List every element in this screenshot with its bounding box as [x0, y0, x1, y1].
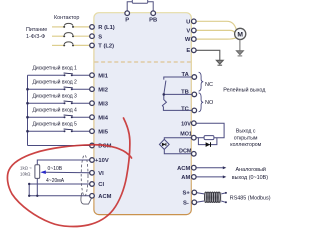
- right terminal labels: [177, 19, 192, 206]
- discrete input labels: [33, 64, 78, 127]
- terminal PB: [151, 11, 156, 16]
- svg-text:P: P: [125, 18, 129, 24]
- left terminal labels: [95, 25, 115, 200]
- internal transistor wires MO1-DCM: [164, 138, 191, 154]
- svg-text:Дискретный вход 2: Дискретный вход 2: [33, 78, 78, 85]
- svg-text:4~20мА: 4~20мА: [46, 178, 65, 184]
- terminal TC: [192, 108, 197, 113]
- svg-text:TB: TB: [181, 89, 189, 95]
- svg-text:открытым: открытым: [234, 135, 258, 141]
- junction dots analog: [28, 183, 39, 197]
- NC brace: [199, 72, 204, 91]
- svg-text:MI1: MI1: [98, 73, 108, 79]
- terminal W: [192, 37, 197, 42]
- svg-text:Дискретный вход 3: Дискретный вход 3: [33, 92, 78, 99]
- contactor K1 poles: [64, 23, 73, 44]
- svg-text:PB: PB: [149, 18, 157, 24]
- wire S phase: [52, 35, 64, 37]
- left terminals column: [90, 11, 197, 205]
- terminal MI3: [90, 101, 95, 106]
- svg-text:S: S: [98, 34, 102, 40]
- +10V wire: [37, 160, 90, 165]
- svg-text:NC: NC: [205, 82, 213, 88]
- svg-text:CI: CI: [98, 182, 104, 188]
- svg-text:U: U: [186, 19, 190, 25]
- terminal P: [125, 11, 130, 16]
- svg-text:W: W: [185, 37, 191, 43]
- terminal MO1: [192, 135, 197, 140]
- terminal ACM left: [90, 194, 95, 199]
- bus junction dots: [26, 88, 29, 91]
- svg-text:S-: S-: [183, 200, 189, 206]
- wire T phase: [52, 44, 64, 46]
- U V W motor wires: [196, 21, 236, 39]
- terminal MI1: [90, 73, 95, 78]
- shielded cable ellipse: [81, 155, 88, 196]
- NO brace: [199, 93, 204, 112]
- svg-text:ACM: ACM: [177, 166, 190, 172]
- svg-text:10V: 10V: [181, 121, 191, 127]
- terminal T: [90, 43, 95, 48]
- svg-text:ACM: ACM: [98, 194, 111, 200]
- current source diamond: [159, 139, 169, 149]
- P PB labels: [125, 18, 157, 24]
- terminal TB: [192, 92, 197, 97]
- svg-text:M: M: [237, 31, 243, 38]
- svg-text:TC: TC: [181, 107, 190, 113]
- RS485 twisted pair wires: [196, 193, 225, 203]
- svg-text:TA: TA: [182, 72, 190, 78]
- svg-text:MO1: MO1: [180, 132, 192, 138]
- VI wiper wire: [45, 171, 90, 174]
- ACM wire: [29, 195, 90, 197]
- open collector external circuit: [196, 123, 224, 144]
- svg-text:VI: VI: [98, 171, 104, 177]
- svg-text:MI2: MI2: [98, 87, 108, 93]
- terminal 10V right: [192, 121, 197, 126]
- svg-text:1kΩ ~: 1kΩ ~: [20, 166, 32, 171]
- svg-text:E: E: [186, 48, 190, 54]
- label Выход с открытым коллектором: [230, 129, 261, 148]
- svg-text:NO: NO: [205, 100, 214, 106]
- terminal V: [192, 28, 197, 33]
- terminal DCM left: [90, 143, 95, 148]
- svg-text:коллектором: коллектором: [230, 142, 261, 148]
- terminal MI4: [90, 115, 95, 120]
- terminal VI: [90, 171, 95, 176]
- svg-text:+10V: +10V: [95, 158, 109, 164]
- potentiometer bottom lead: [36, 178, 38, 195]
- svg-text:Аналоговый: Аналоговый: [236, 166, 266, 173]
- svg-text:Контактор: Контактор: [54, 15, 79, 21]
- terminal AM: [192, 175, 197, 180]
- terminal CI: [90, 182, 95, 187]
- svg-text:выход (0~10В): выход (0~10В): [232, 175, 268, 181]
- CI to ACM link: [28, 184, 30, 196]
- svg-text:Релейный выход: Релейный выход: [223, 87, 266, 94]
- terminal MI5: [90, 129, 95, 134]
- svg-text:MI4: MI4: [98, 115, 108, 121]
- svg-text:DCM: DCM: [179, 148, 192, 154]
- analog output arrows ACM AM: [196, 168, 223, 177]
- discrete input bus: [27, 75, 29, 145]
- svg-text:MI5: MI5: [98, 129, 108, 135]
- terminal E: [192, 48, 197, 53]
- E earth wire: [196, 50, 223, 65]
- DCM wire from bus: [28, 145, 90, 147]
- analog input wiring: [29, 160, 90, 196]
- terminal +10V: [90, 158, 95, 163]
- svg-text:1-Ф/3-Ф: 1-Ф/3-Ф: [26, 34, 45, 40]
- svg-text:AM: AM: [181, 175, 190, 181]
- switch blades on MI rows: [64, 73, 73, 130]
- potentiometer R1: [35, 165, 40, 179]
- motor M: [235, 28, 246, 39]
- terminal DCM right: [192, 152, 197, 157]
- red annotation loop: [7, 118, 131, 227]
- braking resistor: [132, 0, 147, 3]
- wire R phase: [52, 27, 90, 46]
- flyback diode: [206, 142, 211, 147]
- wiper arrow: [40, 170, 46, 174]
- terminal R: [90, 25, 95, 30]
- motor ground: [236, 39, 243, 56]
- terminal U: [192, 19, 197, 24]
- svg-text:Выход с: Выход с: [236, 129, 256, 135]
- inverter block body: [94, 13, 191, 215]
- CI wire: [29, 183, 90, 185]
- svg-text:Дискретный вход 4: Дискретный вход 4: [33, 106, 78, 113]
- relay contact internals: [162, 77, 191, 110]
- svg-text:10kΩ: 10kΩ: [20, 172, 31, 177]
- braking resistor wires P PB: [127, 2, 153, 11]
- shield drain hook: [81, 193, 92, 204]
- svg-text:Дискретный вход 1: Дискретный вход 1: [33, 64, 78, 71]
- svg-text:0~10В: 0~10В: [48, 166, 63, 172]
- choke coil: [205, 192, 222, 203]
- svg-text:Питание: Питание: [26, 27, 47, 33]
- svg-text:Дискретный вход 5: Дискретный вход 5: [33, 120, 78, 127]
- discrete input rows MI1-MI5: [28, 75, 90, 145]
- terminal S: [90, 34, 95, 39]
- svg-text:V: V: [186, 29, 190, 35]
- relay common junction: [163, 93, 166, 96]
- svg-text:MI3: MI3: [98, 101, 108, 107]
- terminal ACM right: [192, 165, 197, 170]
- resistor on MO1: [204, 136, 214, 140]
- terminal MI2: [90, 87, 95, 92]
- svg-text:R (L1): R (L1): [98, 25, 114, 31]
- terminal TA: [192, 75, 197, 80]
- terminal S+: [192, 190, 197, 195]
- svg-text:T (L2): T (L2): [98, 44, 114, 50]
- terminal S-: [192, 200, 197, 205]
- svg-text:S+: S+: [183, 190, 191, 196]
- svg-text:RS485 (Modbus): RS485 (Modbus): [230, 195, 271, 201]
- dashed section separator: [95, 61, 191, 63]
